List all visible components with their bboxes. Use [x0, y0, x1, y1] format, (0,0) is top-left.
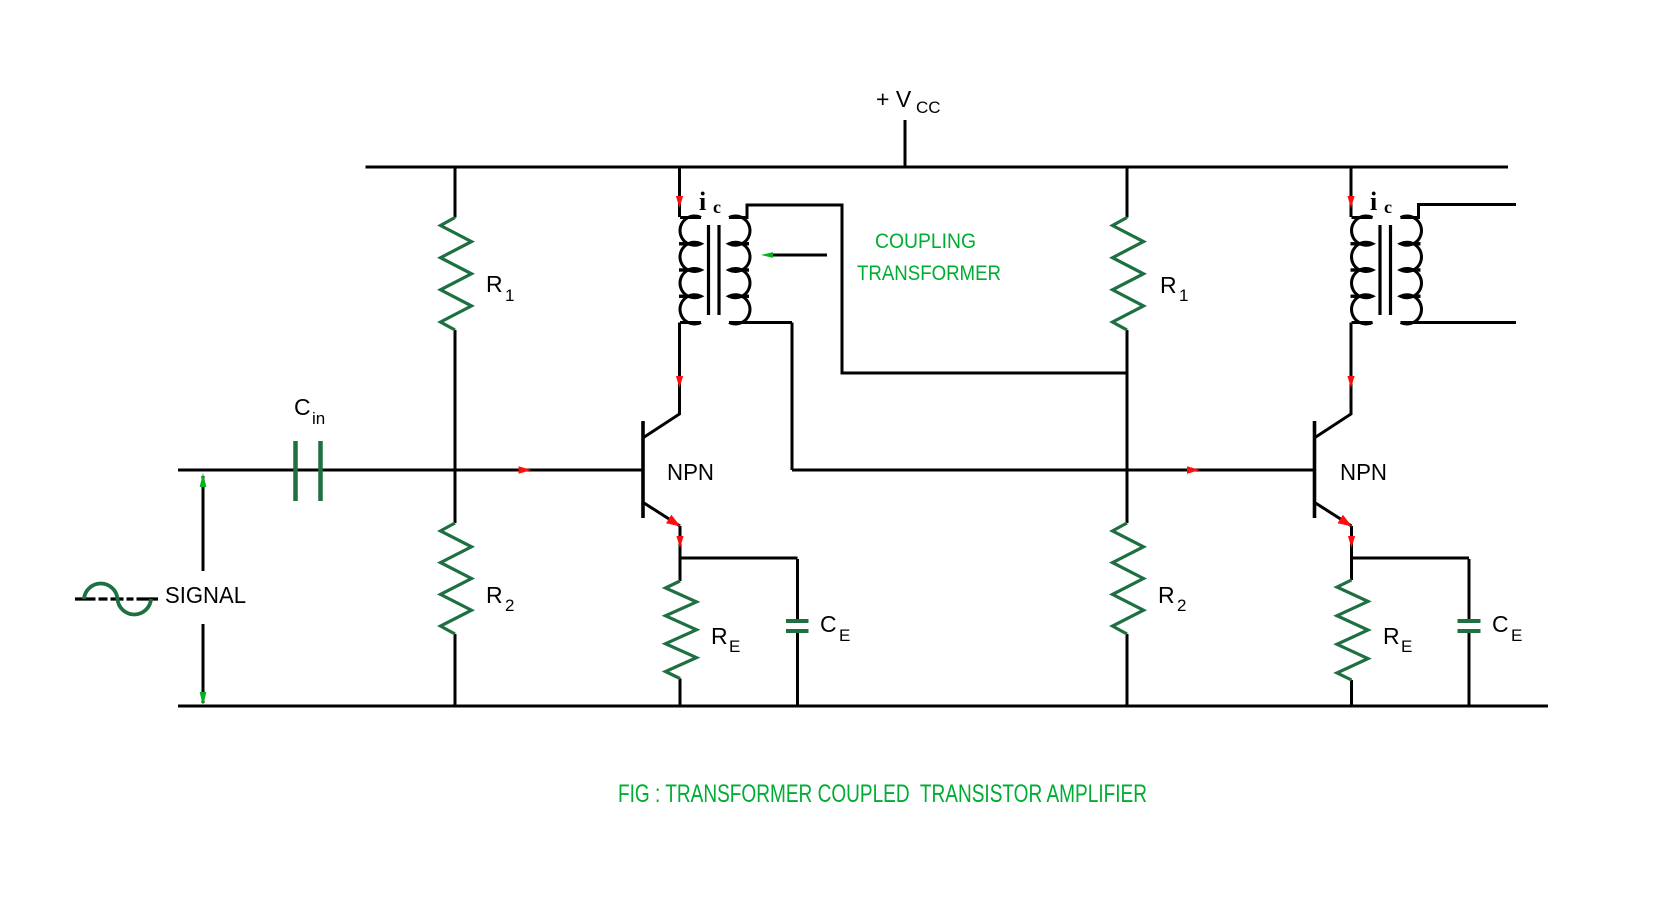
svg-text:i: i [699, 187, 706, 216]
svg-text:2: 2 [1177, 596, 1186, 615]
svg-text:1: 1 [1179, 286, 1188, 305]
svg-text:TRANSFORMER: TRANSFORMER [857, 262, 1001, 285]
svg-text:R: R [486, 271, 503, 297]
svg-text:NPN: NPN [667, 459, 714, 485]
svg-text:+ V: + V [876, 86, 912, 112]
svg-text:1: 1 [505, 286, 514, 305]
svg-text:c: c [1384, 197, 1392, 217]
svg-text:C: C [294, 394, 311, 420]
svg-text:E: E [729, 637, 740, 656]
svg-text:in: in [312, 409, 325, 428]
svg-text:SIGNAL: SIGNAL [165, 582, 246, 608]
svg-text:R: R [1160, 272, 1177, 298]
svg-text:2: 2 [505, 596, 514, 615]
svg-text:CC: CC [916, 98, 941, 117]
svg-text:R: R [1383, 623, 1400, 649]
svg-text:COUPLING: COUPLING [875, 230, 976, 253]
svg-text:c: c [713, 197, 721, 217]
svg-text:C: C [1492, 611, 1509, 637]
svg-text:C: C [820, 611, 837, 637]
svg-text:R: R [486, 582, 503, 608]
svg-text:R: R [711, 623, 728, 649]
svg-text:i: i [1370, 187, 1377, 216]
svg-text:NPN: NPN [1340, 459, 1387, 485]
svg-text:E: E [1511, 626, 1522, 645]
svg-text:FIG : TRANSFORMER COUPLED TRA: FIG : TRANSFORMER COUPLED TRANSISTOR AMP… [618, 780, 1147, 808]
svg-text:R: R [1158, 582, 1175, 608]
svg-text:E: E [1401, 637, 1412, 656]
svg-text:E: E [839, 626, 850, 645]
